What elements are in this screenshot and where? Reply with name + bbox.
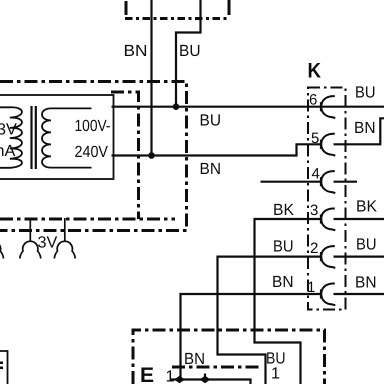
wire BU mid (transformer to pin 6 and right edge) <box>112 106 384 108</box>
svg-text:BN: BN <box>124 42 148 60</box>
svg-text:240V: 240V <box>75 143 109 161</box>
dash-dot enclosure 3 (bottom appliance box) <box>133 330 325 384</box>
char fragment in small box <box>0 362 3 365</box>
pin 1 bar <box>320 289 322 298</box>
pin 4 socket arc <box>321 171 335 193</box>
svg-text:BN: BN <box>354 119 376 137</box>
pin 3 socket arc <box>321 208 335 230</box>
transformer T1 box <box>0 95 114 179</box>
pin 6 bar <box>320 102 322 111</box>
dash-dot lamp strip line <box>0 218 175 221</box>
wire pin 2 right side <box>334 256 384 258</box>
svg-text:BU: BU <box>356 236 377 254</box>
svg-text:3V: 3V <box>38 234 58 252</box>
terminal stub <box>204 374 206 380</box>
svg-text:1: 1 <box>166 368 175 384</box>
lamp H2 <box>29 218 31 242</box>
dash-dot inner line (component box top) <box>172 366 262 369</box>
terminal diamond 1 <box>174 376 185 383</box>
svg-text:5: 5 <box>311 130 319 147</box>
wire pin 3 right side <box>334 218 384 220</box>
dash-dot enclosure top (cropped box above) <box>125 0 230 19</box>
svg-text:1: 1 <box>271 365 280 383</box>
junction dot BN <box>148 152 155 159</box>
connector K dash-dot box <box>308 88 346 310</box>
wire pin 5 right side <box>334 118 384 144</box>
transformer primary winding (left coil) <box>0 107 22 168</box>
pin 1 socket arc <box>321 283 335 305</box>
svg-text:mA: mA <box>0 142 15 160</box>
transformer core <box>30 106 32 169</box>
svg-text:BK: BK <box>273 201 294 219</box>
svg-text:BU: BU <box>200 112 222 130</box>
svg-text:100V-: 100V- <box>75 117 111 135</box>
svg-text:E: E <box>140 364 154 384</box>
wire BK to pin 3 <box>255 219 321 384</box>
svg-text:BU: BU <box>179 42 201 60</box>
svg-text:BU: BU <box>273 238 294 256</box>
svg-text:BK: BK <box>356 198 377 216</box>
pin 6 socket arc <box>321 96 335 118</box>
svg-text:3V: 3V <box>0 121 17 139</box>
svg-text:2: 2 <box>310 240 318 257</box>
svg-text:6: 6 <box>309 92 317 109</box>
svg-text:BN: BN <box>355 274 377 292</box>
dash-dot enclosure 1 (left appliance box) <box>0 82 187 231</box>
lamp H1 (cropped at left edge) <box>0 241 4 258</box>
lamp H3 <box>64 218 66 242</box>
pin 5 socket arc <box>321 134 335 156</box>
transformer secondary winding (right coil) <box>42 108 92 167</box>
svg-text:3: 3 <box>310 202 318 219</box>
wire pin 1 right side <box>334 293 384 295</box>
wire BU from top with jog <box>176 0 201 107</box>
junction dot BU <box>173 103 180 110</box>
pin 2 socket arc <box>321 246 335 268</box>
pin 5 bar <box>320 140 322 149</box>
svg-text:BN: BN <box>272 273 294 291</box>
dash-dot enclosure 2 (around transformer) <box>111 92 139 219</box>
wire BN mid (transformer to pin 5) <box>112 144 321 155</box>
pin 2 bar <box>320 252 322 261</box>
pin 4 bar <box>320 177 322 186</box>
wire BN to pin 1 <box>181 294 321 380</box>
svg-text:4: 4 <box>312 166 320 183</box>
terminal diamond 2 <box>200 376 211 383</box>
svg-text:BU: BU <box>355 84 376 102</box>
svg-text:BN: BN <box>184 350 205 368</box>
pin 3 bar <box>320 214 322 223</box>
svg-text:K: K <box>308 60 322 83</box>
small box bottom-left corner <box>0 351 8 384</box>
wire BU to pin 2 <box>218 257 321 384</box>
wire terminal row in box E <box>171 380 251 384</box>
wire BN vertical from top <box>150 0 152 156</box>
pin 4 left stub wire <box>261 181 321 183</box>
svg-text:BN: BN <box>200 160 222 178</box>
pin 4 right stub wire <box>334 181 358 183</box>
